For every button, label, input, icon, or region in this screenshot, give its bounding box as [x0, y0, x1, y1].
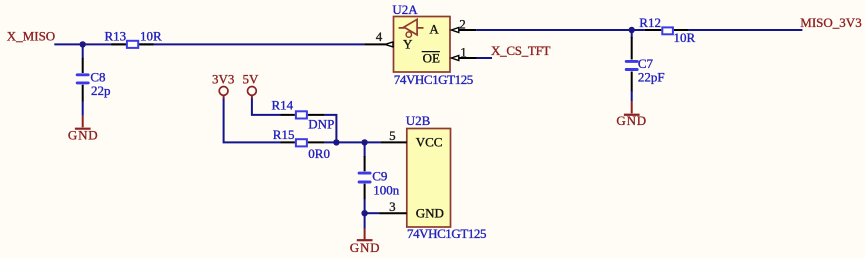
power port 3V3 — [212, 72, 234, 99]
ground GND (under C9) — [350, 229, 381, 255]
svg-text:R15: R15 — [273, 127, 295, 142]
svg-text:U2A: U2A — [392, 2, 418, 17]
svg-text:VCC: VCC — [416, 134, 443, 149]
svg-text:5V: 5V — [243, 72, 260, 87]
designator R13 — [105, 29, 127, 44]
pin number 5 — [389, 128, 396, 143]
pin number 4 — [376, 29, 383, 44]
wire junction to U2B pin3 — [365, 212, 380, 214]
net label MISO_3V3 — [800, 15, 861, 30]
pin name OE (with overline) — [422, 50, 440, 65]
designator C7 — [638, 56, 654, 71]
node junction at C8 branch — [80, 41, 86, 47]
svg-text:22p: 22p — [91, 83, 111, 98]
wire C9 top — [364, 142, 366, 157]
svg-text:R12: R12 — [639, 15, 661, 30]
resistor R12 — [645, 27, 689, 34]
pin number 2 — [459, 17, 466, 32]
value 0R0 (R15) — [308, 146, 330, 161]
svg-text:4: 4 — [376, 29, 383, 44]
value DNP (R14) — [308, 117, 334, 132]
svg-text:GND: GND — [416, 205, 444, 220]
svg-text:U2B: U2B — [406, 113, 431, 128]
wire junction to C7 — [631, 30, 633, 38]
wire junction to C8 — [82, 44, 84, 58]
net label X_CS_TFT — [491, 43, 551, 58]
node junction at C7 branch — [629, 27, 635, 33]
wire junction to GND (C9) — [364, 213, 366, 228]
part number 74VHC1GT125 (U2A) — [394, 72, 474, 87]
capacitor C7 — [626, 37, 637, 92]
svg-text:C9: C9 — [372, 168, 387, 183]
svg-text:2: 2 — [459, 17, 466, 32]
value 22pF (C7) — [638, 69, 665, 84]
wire R14 to junction — [324, 115, 336, 142]
op-amp U2A (buffer 74VHC1GT125) — [394, 17, 451, 73]
svg-text:DNP: DNP — [308, 117, 334, 132]
capacitor C8 — [77, 58, 88, 102]
svg-text:R14: R14 — [272, 98, 294, 113]
svg-text:Y: Y — [403, 36, 413, 51]
node junction R14/R15 merge — [333, 139, 339, 145]
designator U2B — [406, 113, 431, 128]
svg-text:0R0: 0R0 — [308, 146, 330, 161]
wire C7 to GND — [631, 91, 633, 101]
wire junction to C9 junction and U2B pin5 — [324, 141, 381, 143]
pin 1 (OE input) — [451, 56, 477, 61]
pin name VCC — [416, 134, 443, 149]
svg-text:MISO_3V3: MISO_3V3 — [800, 15, 861, 30]
svg-text:X_CS_TFT: X_CS_TFT — [491, 43, 551, 58]
wire C9 bottom to junction — [364, 199, 366, 213]
svg-text:3: 3 — [389, 199, 396, 214]
pin 4 (Y output) — [364, 42, 393, 47]
pin name A — [429, 22, 439, 37]
designator C9 — [372, 168, 387, 183]
svg-text:22pF: 22pF — [638, 69, 665, 84]
designator R15 — [273, 127, 295, 142]
node junction C9 top — [361, 139, 367, 145]
wire pin1 stub — [477, 57, 492, 59]
buffer triangle icon — [399, 19, 424, 35]
value 22p (C8) — [91, 83, 111, 98]
svg-text:R13: R13 — [105, 29, 127, 44]
designator C8 — [90, 70, 105, 85]
svg-text:10R: 10R — [674, 30, 696, 45]
ground GND (under C7) — [616, 101, 647, 128]
designator R12 — [639, 15, 661, 30]
pin 5 (VCC) — [381, 141, 407, 143]
wire 3V3 to R15 — [224, 99, 281, 143]
svg-text:GND: GND — [616, 113, 647, 128]
value 10R (R12) — [674, 30, 696, 45]
svg-text:GND: GND — [68, 128, 99, 143]
ground GND (under C8) — [68, 116, 99, 143]
svg-text:OE: OE — [423, 50, 440, 65]
svg-text:74VHC1GT125: 74VHC1GT125 — [407, 226, 487, 241]
wire X_MISO to U2A pin4 — [54, 43, 364, 45]
resistor R14 — [281, 111, 325, 118]
net label X_MISO — [7, 29, 55, 44]
power port 5V — [243, 72, 260, 99]
pin name Y — [403, 36, 413, 51]
svg-text:A: A — [429, 22, 439, 37]
resistor R13 — [111, 41, 153, 48]
svg-text:X_MISO: X_MISO — [7, 29, 55, 44]
pin 2 (A input) — [451, 28, 476, 33]
value 100n (C9) — [373, 183, 400, 198]
svg-text:3V3: 3V3 — [212, 72, 234, 87]
wire pin2 to R12 — [476, 29, 645, 31]
value 10R (R13) — [140, 29, 162, 44]
svg-text:GND: GND — [350, 240, 381, 255]
pin number 3 — [389, 199, 396, 214]
wire R12 to MISO_3V3 — [688, 29, 802, 31]
svg-text:10R: 10R — [140, 29, 162, 44]
part number 74VHC1GT125 (U2B) — [407, 226, 487, 241]
svg-text:100n: 100n — [373, 183, 400, 198]
svg-text:74VHC1GT125: 74VHC1GT125 — [394, 72, 474, 87]
svg-text:1: 1 — [460, 44, 467, 59]
svg-text:5: 5 — [389, 128, 396, 143]
designator R14 — [272, 98, 294, 113]
op-amp U2B (power part 74VHC1GT125) — [407, 129, 451, 228]
pin name GND — [416, 205, 444, 220]
node junction C9 bottom — [361, 210, 367, 216]
pin number 1 — [460, 44, 467, 59]
capacitor C9 — [359, 156, 370, 200]
wire C8 to GND — [82, 101, 84, 116]
resistor R15 — [281, 139, 325, 146]
pin 3 (GND) — [380, 212, 407, 214]
designator U2A — [392, 2, 418, 17]
wire 5V to R14 — [252, 99, 281, 115]
